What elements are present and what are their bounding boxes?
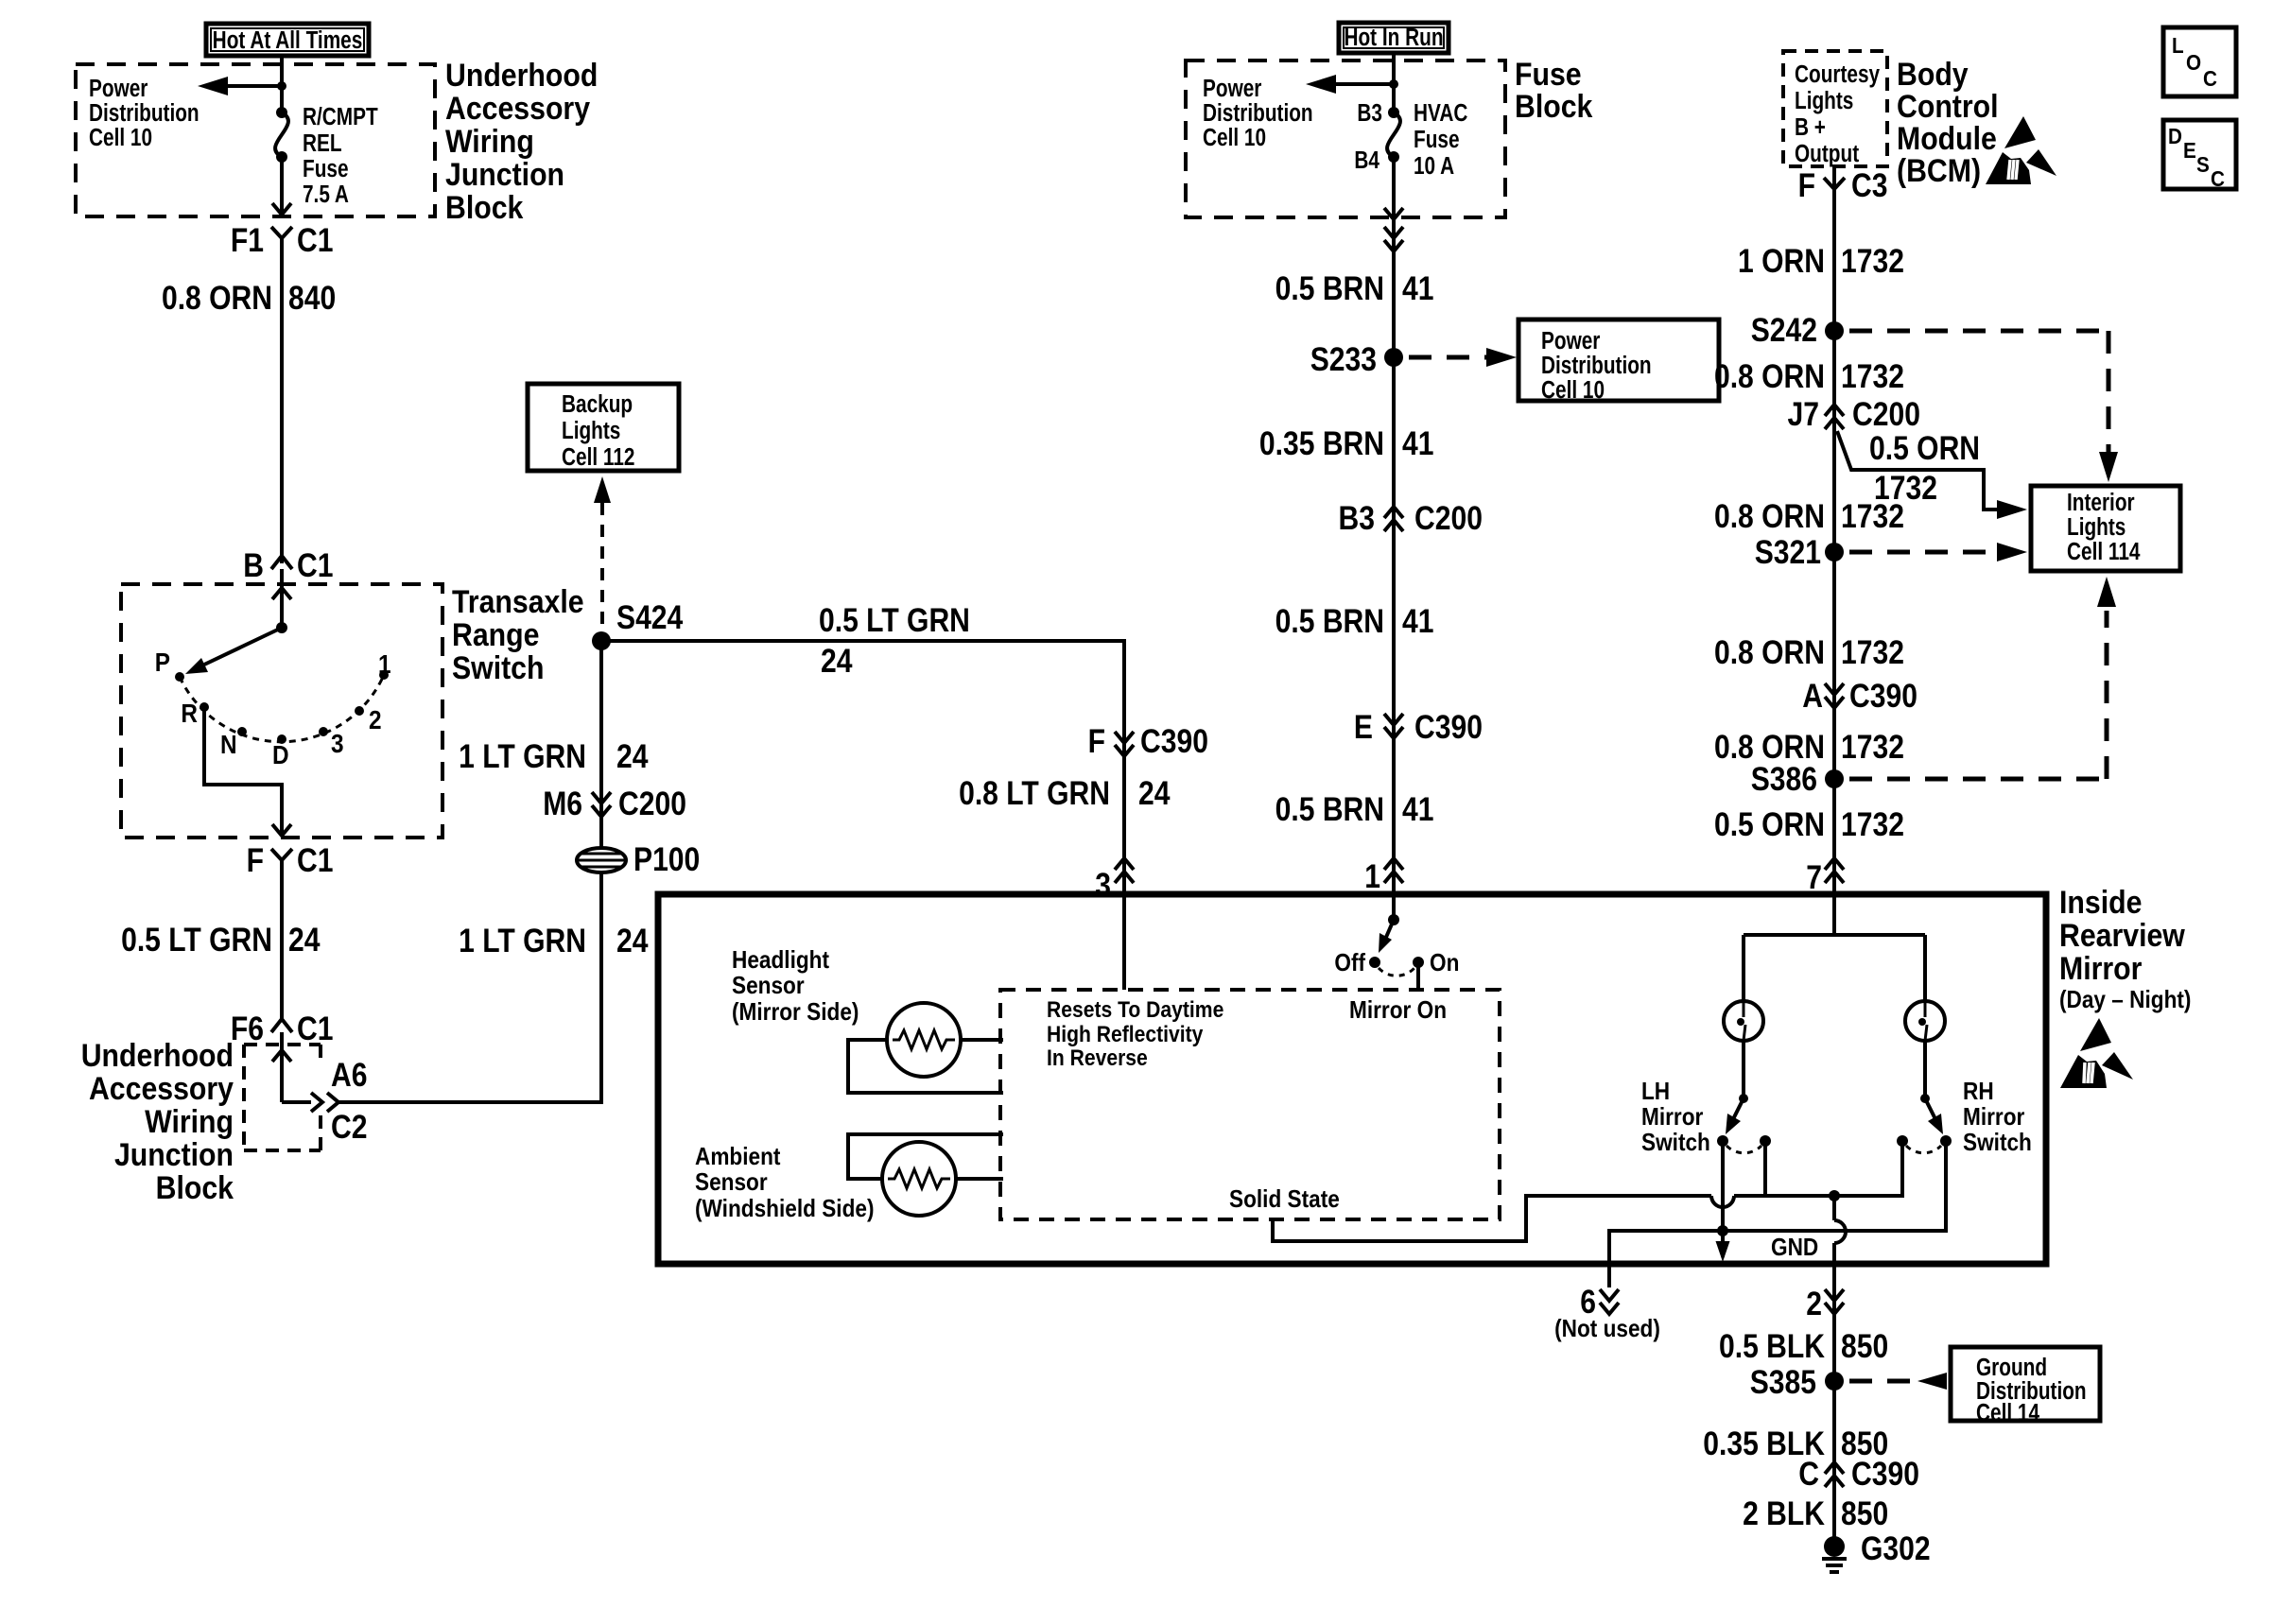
dashed arrow: S321 to Interior Lights Cell 114 [1849,543,2027,561]
svg-text:High Reflectivity: High Reflectivity [1047,1022,1204,1047]
label: 2 BLK 850 [1743,1494,1888,1532]
svg-text:D: D [2168,124,2182,148]
label: 1 LT GRN 24 (lower) [459,922,648,959]
junction block dashed box: Underhood Accessory Wiring Junction Block [76,64,435,216]
transaxle switch pivot and wiper arm [185,622,287,674]
label: 0.5 BRN 41 (first) [1275,269,1434,307]
svg-text:(Mirror Side): (Mirror Side) [732,999,859,1027]
svg-text:A: A [1802,677,1823,715]
splice S321 [1755,533,1844,571]
connector C390 pin F [1088,722,1208,760]
connector C2 pin A6 (double chevron right) [311,1056,367,1146]
svg-text:C3: C3 [1851,166,1887,204]
svg-text:Cell 114: Cell 114 [2067,538,2140,565]
svg-text:6: 6 [1580,1283,1596,1321]
svg-text:B: B [243,546,264,584]
svg-text:N: N [220,729,237,759]
connector: mirror pin 7 [1806,858,1844,896]
fuse: HVAC Fuse 10 A pins B3 B4 [1354,99,1400,174]
splice S242 [1751,311,1844,349]
svg-text:Mirror: Mirror [1963,1104,2025,1132]
svg-text:Distribution: Distribution [89,99,200,127]
svg-text:Module: Module [1897,120,1997,156]
svg-text:Fuse: Fuse [1414,126,1460,153]
svg-text:Ambient: Ambient [695,1144,780,1171]
svg-text:Fuse: Fuse [1515,56,1582,92]
label: Courtesy Lights B+ Output [1795,60,1880,167]
wire: 0.5 BLK 850 [1832,1287,1836,1537]
label: LH Mirror Switch [1641,1079,1710,1157]
dashed arrow: S386 to Interior Lights Cell 114 [1849,577,2116,779]
svg-text:0.5 LT GRN: 0.5 LT GRN [819,601,970,639]
svg-text:Backup: Backup [562,390,633,418]
wire: pin 2 down with hop over ground bus [1834,1196,1846,1287]
label: Power Distribution Cell 10 (fuse block) [1203,75,1313,151]
svg-text:Off: Off [1334,950,1365,977]
svg-text:Underhood: Underhood [81,1037,234,1073]
svg-text:C1: C1 [297,841,333,879]
svg-text:Junction: Junction [445,156,564,192]
connector C1 pin F6 [231,1010,334,1047]
wire: ignition feed into fuse block [1392,53,1396,112]
solid state dashed box [1000,990,1500,1219]
svg-text:Lights: Lights [2067,513,2126,541]
arrow: to Power Distribution Cell 10 [198,77,282,95]
wire: 0.5 BRN 41 segment [1392,216,1396,894]
wire: solid state line to RH switch left contact [1734,1140,1902,1196]
labels: Off / On [1334,950,1459,977]
svg-text:0.5 ORN: 0.5 ORN [1714,805,1825,843]
mirror on/off switch [1369,914,1424,976]
label: 0.5 BRN 41 (third) [1275,790,1434,828]
legend box: DESC [2163,120,2236,191]
svg-text:Cell 14: Cell 14 [1976,1399,2039,1426]
svg-text:1: 1 [1364,857,1380,895]
connector: mirror pin 1 [1364,857,1403,895]
svg-text:B +: B + [1795,113,1826,141]
wire: LH left contact to GND with arrow [1716,1140,1730,1262]
connector C200 pin J7 [1788,395,1920,433]
splice S233 [1310,340,1403,378]
svg-text:F: F [1088,722,1105,760]
svg-text:41: 41 [1402,790,1433,828]
label: 0.35 BRN 41 [1259,424,1434,462]
label: Resets To Daytime High Reflectivity In Reverse [1047,997,1223,1071]
connector: mirror pin 2 [1806,1285,1844,1322]
svg-text:C200: C200 [1852,395,1920,433]
svg-text:41: 41 [1402,602,1433,640]
svg-text:Accessory: Accessory [89,1070,234,1106]
wire: pin 7 to dimming lamps [1744,894,1925,1003]
svg-text:L: L [2172,33,2184,58]
wire: ground bus pin 6 to RH right contact [1609,1140,1946,1264]
svg-text:J7: J7 [1788,395,1819,433]
svg-text:Solid State: Solid State [1229,1186,1340,1214]
svg-text:HVAC: HVAC [1414,99,1467,127]
wire: A6 output running to transaxle feed [338,955,601,1102]
power source box: Hot In Run [1339,23,1449,53]
svg-text:C2: C2 [331,1108,367,1146]
svg-text:Switch: Switch [1641,1130,1710,1157]
svg-text:S385: S385 [1750,1363,1816,1401]
label: Fuse Block [1515,56,1592,124]
svg-text:Switch: Switch [452,649,544,685]
grommet P100 [577,840,700,878]
label: 0.8 ORN 1732 (above J7) [1714,357,1904,395]
svg-text:B4: B4 [1354,147,1379,174]
svg-text:24: 24 [821,642,852,680]
connector C1 pin F [247,841,334,879]
wire: through lower junction block [272,1032,311,1102]
svg-text:Hot At All Times: Hot At All Times [213,26,363,54]
svg-text:On: On [1430,950,1459,977]
node: junction pin 2 wire [1829,1190,1840,1201]
arrow: to Power Distribution Cell 10 (fuse block) [1306,75,1394,94]
svg-text:Cell 10: Cell 10 [1203,124,1266,151]
reference box: Backup Lights Cell 112 [528,384,679,471]
svg-text:0.5 BRN: 0.5 BRN [1275,602,1384,640]
svg-text:Lights: Lights [562,417,620,444]
label: 0.5 LT GRN 24 (horizontal run) [819,601,970,680]
svg-text:24: 24 [1138,774,1170,812]
wire: pin 1 to mirror on/off switch [1392,894,1396,920]
node: junction to Power Distribution (fuse block) [1389,79,1398,89]
svg-text:C390: C390 [1849,677,1917,715]
svg-text:C200: C200 [618,785,686,822]
svg-text:1732: 1732 [1841,805,1904,843]
svg-text:0.5 ORN: 0.5 ORN [1869,429,1980,467]
wire: 1 ORN 1732 from BCM [1832,166,1836,894]
svg-text:F: F [247,841,264,879]
svg-text:Sensor: Sensor [732,973,805,1000]
wire: LH right contact down to solid state line [1763,1140,1767,1196]
svg-text:C1: C1 [297,221,333,259]
svg-text:C: C [2203,66,2217,91]
wire hop: solid state line over LH switch wire [1711,1196,1734,1207]
connector C1 pin F1 [231,221,334,259]
svg-text:Interior: Interior [2067,489,2135,516]
svg-text:1 ORN: 1 ORN [1738,242,1825,280]
wire: LH lamp to LH mirror switch [1742,1041,1745,1097]
svg-text:24: 24 [616,737,648,775]
svg-text:R/CMPT: R/CMPT [303,103,378,130]
svg-text:1 LT GRN: 1 LT GRN [459,922,586,959]
svg-text:7.5 A: 7.5 A [303,181,349,208]
svg-text:Junction: Junction [114,1136,234,1172]
label: GND [1771,1235,1818,1262]
svg-text:REL: REL [303,130,342,157]
svg-text:Block: Block [1515,88,1592,124]
svg-text:1732: 1732 [1841,357,1904,395]
label: 0.8 LT GRN 24 [959,774,1170,812]
headlight sensor (photoresistor) [887,1003,961,1077]
svg-text:Lights: Lights [1795,87,1853,114]
svg-text:C: C [1798,1455,1819,1493]
connector C200 pin B3 [1339,499,1483,537]
fuse F1: R/CMPT REL Fuse 7.5 A [275,107,288,163]
label: Mirror On [1349,997,1447,1025]
svg-text:Distribution: Distribution [1203,99,1313,127]
svg-text:RH: RH [1963,1079,1994,1106]
svg-text:24: 24 [288,921,320,959]
svg-text:Headlight: Headlight [732,947,829,975]
svg-text:R: R [181,698,198,728]
svg-text:C390: C390 [1414,708,1483,746]
LH dimming lamp [1724,1001,1763,1041]
junction block dashed box (lower) [244,1045,321,1150]
svg-text:(Not used): (Not used) [1554,1316,1660,1343]
svg-text:0.8 ORN: 0.8 ORN [162,279,272,317]
dashed arrow: S233 to Power Distribution Cell 10 [1409,348,1517,367]
ESD symbol (BCM) [1986,116,2056,184]
label: 0.5 BLK 850 [1719,1327,1888,1365]
svg-text:Range: Range [452,616,539,652]
labels: switch positions P R N D 3 2 1 [155,647,391,769]
svg-text:B3: B3 [1357,99,1382,127]
label: 1 LT GRN 24 (upper) [459,737,648,775]
wires: ambient sensor to solid state [848,1134,1003,1179]
svg-text:1: 1 [378,648,391,679]
connector C390 pin C [1798,1455,1919,1493]
label: 0.8 ORN 1732 (above S321) [1714,497,1904,535]
legend box: LOC [2163,27,2236,96]
LH mirror switch [1717,1094,1771,1153]
svg-text:Power: Power [89,75,147,102]
dashed arc through switch positions [180,675,384,742]
svg-text:S321: S321 [1755,533,1821,571]
connector C390 pin A [1802,677,1917,715]
svg-text:A6: A6 [331,1056,367,1094]
svg-text:C390: C390 [1851,1455,1919,1493]
svg-text:Transaxle: Transaxle [452,583,584,619]
fuse block dashed box [1186,60,1505,217]
svg-text:C390: C390 [1140,722,1208,760]
transaxle range switch dashed box [121,584,442,838]
label: 0.8 ORN 840 [162,279,336,317]
svg-text:B3: B3 [1339,499,1375,537]
svg-text:(Day – Night): (Day – Night) [2059,987,2191,1014]
node: junction to Power Distribution feed [277,81,286,91]
svg-text:F6: F6 [231,1010,264,1047]
svg-text:0.5 BRN: 0.5 BRN [1275,790,1384,828]
svg-text:C: C [2211,166,2225,191]
svg-text:S242: S242 [1751,311,1817,349]
svg-text:1732: 1732 [1841,242,1904,280]
connector C1 pin B [243,546,333,584]
svg-text:Sensor: Sensor [695,1169,768,1197]
svg-text:0.35 BRN: 0.35 BRN [1259,424,1384,462]
connector below fuse block (double chevron) [1384,227,1403,251]
connector: mirror pin 6 (not used) [1554,1264,1660,1342]
component box: Inside Rearview Mirror [658,894,2046,1264]
reference box: Interior Lights Cell 114 [2031,486,2180,571]
wire: 1 LT GRN 24 below P100 [599,872,603,955]
dashed arrow: S242 to Interior Lights Cell 114 [1849,331,2118,482]
ground G302 [1822,1529,1931,1572]
svg-text:41: 41 [1402,269,1433,307]
svg-text:0.5 BLK: 0.5 BLK [1719,1327,1825,1365]
svg-text:(Windshield Side): (Windshield Side) [695,1196,874,1223]
svg-text:1 LT GRN: 1 LT GRN [459,737,586,775]
reference box: Power Distribution Cell 10 [1518,320,1719,404]
wire: 1 LT GRN 24 from S424 down [599,641,603,849]
svg-text:M6: M6 [543,785,582,822]
connector C3 pin F [1798,166,1888,204]
splice S386 [1751,760,1844,798]
svg-text:C1: C1 [297,1010,333,1047]
svg-text:7: 7 [1806,858,1822,896]
label: Ambient Sensor (Windshield Side) [695,1144,874,1223]
label: Underhood Accessory Wiring Junction Block [445,57,598,225]
svg-text:E: E [1354,708,1373,746]
BCM dashed box: Courtesy Lights B+ Output [1783,51,1887,166]
wire: 0.8 ORN 840 segment [280,238,284,563]
label: 0.5 ORN 1732 [1714,805,1904,843]
svg-text:C1: C1 [297,546,333,584]
svg-text:GND: GND [1771,1235,1818,1262]
svg-text:2 BLK: 2 BLK [1743,1494,1825,1532]
svg-text:Hot In Run: Hot In Run [1344,24,1443,51]
wire: 0.5 LT GRN 24 segment [280,860,284,1019]
svg-text:1732: 1732 [1841,497,1904,535]
svg-text:1732: 1732 [1841,728,1904,766]
svg-text:Courtesy: Courtesy [1795,60,1880,88]
svg-text:P: P [155,647,170,677]
dashed arrow: to Backup Lights Cell 112 [594,476,611,631]
svg-text:2: 2 [369,704,382,734]
svg-text:C200: C200 [1414,499,1483,537]
svg-text:Cell 10: Cell 10 [1541,376,1605,404]
wire: 0.5 ORN 1732 branch to Interior Lights [1837,431,2027,519]
splice S385 [1750,1363,1844,1401]
svg-text:0.8 ORN: 0.8 ORN [1714,357,1825,395]
wire: fuse output with arrow at fuse block edge [1384,157,1403,219]
svg-text:41: 41 [1402,424,1433,462]
svg-text:S: S [2196,152,2210,177]
wire: RH lamp to RH mirror switch [1923,1041,1927,1097]
svg-text:G302: G302 [1861,1529,1931,1567]
svg-text:In Reverse: In Reverse [1047,1045,1148,1071]
svg-text:Output: Output [1795,140,1859,167]
label: R/CMPT REL Fuse 7.5 A [303,103,378,208]
reference box: Ground Distribution Cell 14 [1951,1347,2100,1426]
label: 0.5 ORN 1732 (branch) [1869,429,1980,507]
svg-text:(BCM): (BCM) [1897,152,1981,188]
svg-text:S233: S233 [1310,340,1377,378]
svg-text:3: 3 [1095,866,1111,904]
label: Solid State [1229,1186,1340,1214]
svg-text:E: E [2183,138,2196,163]
svg-text:Switch: Switch [1963,1130,2032,1157]
svg-text:0.8 LT GRN: 0.8 LT GRN [959,774,1110,812]
svg-text:Block: Block [156,1169,234,1205]
label: Headlight Sensor (Mirror Side) [732,947,859,1027]
wire: 0.5 LT GRN 24 from S424 to C390 [601,641,1124,894]
svg-text:O: O [2186,50,2201,75]
label: 0.5 BRN 41 (second) [1275,602,1434,640]
svg-text:10 A: 10 A [1414,152,1454,180]
svg-text:840: 840 [288,279,336,317]
svg-text:Wiring: Wiring [145,1103,234,1139]
RH mirror switch [1897,1094,1952,1153]
svg-text:F1: F1 [231,221,264,259]
wire: On contact to solid state (Mirror On) [1416,962,1420,990]
svg-text:D: D [272,739,289,769]
node: junction LH contact / ground bus [1717,1225,1728,1236]
svg-text:Rearview: Rearview [2059,917,2186,953]
svg-text:Underhood: Underhood [445,57,598,93]
ambient sensor (photoresistor) [882,1142,956,1216]
ESD symbol (mirror) [2060,1018,2133,1088]
svg-text:3: 3 [331,728,344,758]
connector C200 pin M6 [543,785,686,822]
label: Body Control Module (BCM) [1897,56,1999,188]
label: RH Mirror Switch [1963,1079,2032,1157]
svg-text:850: 850 [1841,1327,1888,1365]
wire: into transaxle range switch [272,569,291,628]
wire: battery feed into junction block [280,56,284,112]
RH dimming lamp [1905,1001,1945,1041]
svg-text:2: 2 [1806,1285,1822,1322]
dashed arrow: S385 to Ground Distribution Cell 14 [1849,1373,1947,1390]
svg-text:Accessory: Accessory [445,90,590,126]
svg-text:Control: Control [1897,88,1999,124]
label: Inside Rearview Mirror (Day-Night) [2059,884,2191,1013]
svg-text:Inside: Inside [2059,884,2142,920]
svg-text:Cell 10: Cell 10 [89,124,152,151]
svg-text:0.5 BRN: 0.5 BRN [1275,269,1384,307]
svg-text:S386: S386 [1751,760,1817,798]
svg-text:Power: Power [1203,75,1261,102]
svg-text:Block: Block [445,189,523,225]
wire: solid state output jog [1273,1196,1711,1241]
svg-text:Resets To Daytime: Resets To Daytime [1047,997,1223,1023]
label: Underhood Accessory Wiring Junction Block (lower) [81,1037,234,1205]
label: 0.8 ORN 1732 (above S386) [1714,728,1904,766]
label: HVAC Fuse 10 A [1414,99,1467,180]
wire: pin 3 into solid state [1122,894,1126,990]
svg-text:Mirror: Mirror [2059,950,2143,986]
label: Power Distribution Cell 10 [89,75,200,151]
svg-text:F: F [1798,166,1815,204]
connector C390 pin E [1354,708,1483,746]
svg-text:P100: P100 [633,840,700,878]
svg-text:0.8 ORN: 0.8 ORN [1714,497,1825,535]
wire: fuse output with arrow at junction block edge [272,157,291,215]
label: 1 ORN 1732 [1738,242,1904,280]
svg-text:0.8 ORN: 0.8 ORN [1714,633,1825,671]
svg-text:1732: 1732 [1841,633,1904,671]
svg-text:Distribution: Distribution [1541,352,1652,379]
svg-text:24: 24 [616,922,648,959]
label: 0.35 BLK 850 [1703,1425,1888,1462]
svg-text:Mirror On: Mirror On [1349,997,1447,1025]
power source box: Hot At All Times [206,24,369,56]
svg-text:LH: LH [1641,1079,1670,1106]
label: Transaxle Range Switch [452,583,584,685]
svg-text:850: 850 [1841,1494,1888,1532]
svg-text:Wiring: Wiring [445,123,534,159]
svg-text:0.5 LT GRN: 0.5 LT GRN [121,921,272,959]
wire: from R contact to switch output [204,707,291,836]
connector: mirror pin 3 [1095,858,1134,904]
svg-text:Body: Body [1897,56,1969,92]
label: 0.8 ORN 1732 (above A C390) [1714,633,1904,671]
svg-text:Power: Power [1541,327,1600,354]
svg-text:Fuse: Fuse [303,155,349,182]
svg-text:S424: S424 [616,598,683,636]
svg-text:Mirror: Mirror [1641,1104,1704,1132]
